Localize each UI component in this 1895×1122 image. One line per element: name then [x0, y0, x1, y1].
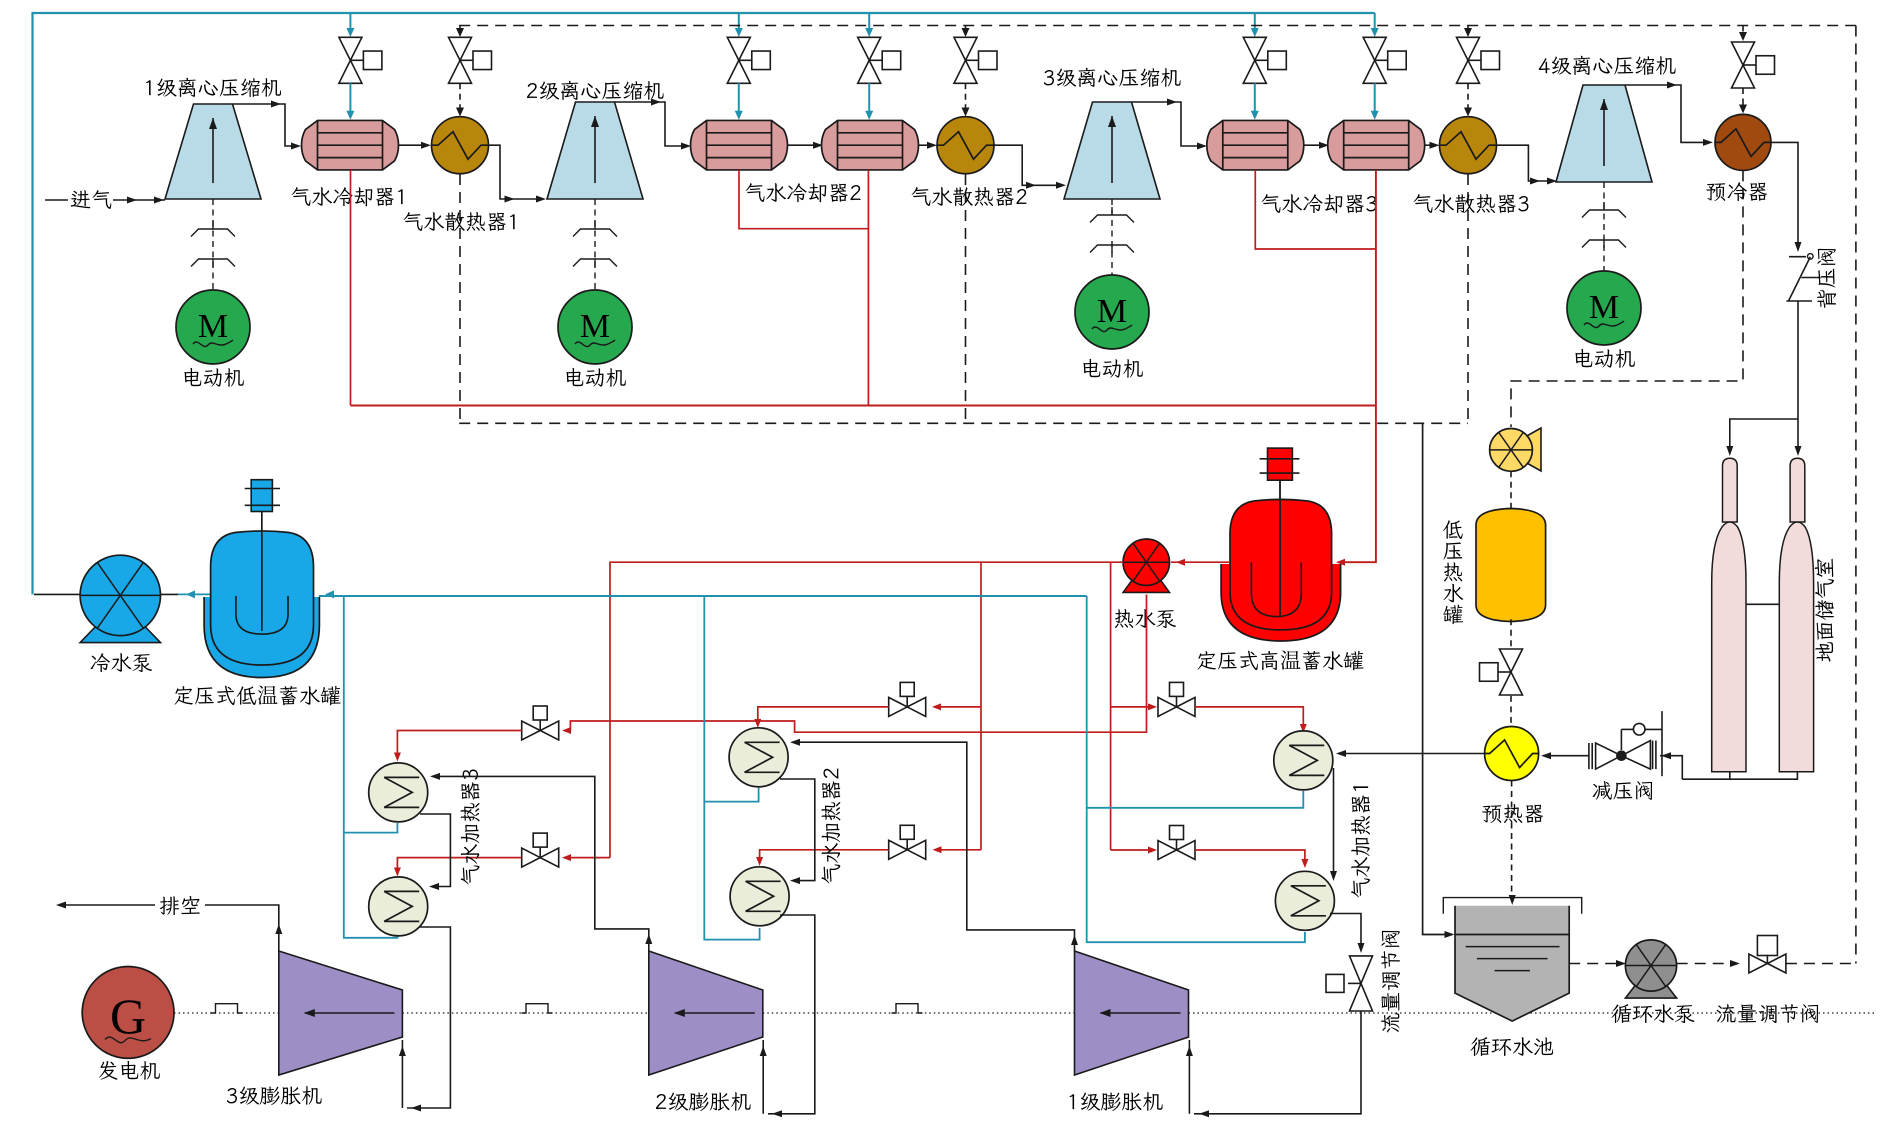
- wire heater2-bottom to expander2: [768, 915, 815, 1114]
- wire dashed valve to radiator: [459, 83, 461, 108]
- label 气水加热器2: [821, 768, 840, 883]
- wire flow valve to right riser: [1786, 963, 1856, 965]
- valve cooling water inlet valve: [727, 37, 750, 60]
- label 排空: [160, 896, 200, 915]
- wire red heater3a feed: [566, 721, 610, 731]
- cooler 气水冷却器3a: [1207, 120, 1304, 170]
- arrow teal into valve: [735, 28, 743, 37]
- wire storage to reducing valve: [1660, 756, 1682, 780]
- coupling compressor2 lower: [573, 259, 617, 267]
- wire dashed precooler to fan: [1511, 170, 1743, 427]
- valve below hot water tank: [1500, 649, 1523, 672]
- coupling compressor1 lower: [191, 259, 235, 267]
- label 2级膨胀机: [656, 1092, 751, 1111]
- wire red hot bus: [351, 405, 1376, 407]
- valve cooling water inlet valve: [1243, 37, 1266, 60]
- wire teal valve to cooler: [738, 83, 740, 111]
- label 气水冷却器1: [292, 187, 403, 206]
- wire dashed fan to tank: [1510, 471, 1512, 510]
- wire precooler to back pressure valve: [1771, 142, 1798, 246]
- svg-text:M: M: [198, 308, 228, 345]
- coupling compressor1 upper: [191, 229, 235, 237]
- wire teal heater2-top branch: [704, 787, 758, 802]
- wire dashed tank to valve: [1510, 619, 1512, 648]
- wire cooling return to pool: [1423, 423, 1448, 934]
- valve radiator cooling valve: [449, 37, 472, 60]
- wire teal valve to cooler: [868, 83, 870, 111]
- valve 减压阀: [1596, 743, 1622, 769]
- wire red pump bottom line: [610, 595, 1147, 733]
- heater 气水加热器2 top: [729, 728, 788, 787]
- wire cooler3b to radiator3: [1425, 144, 1433, 146]
- coupling compressor3 upper: [1090, 215, 1134, 223]
- label 流量调节阀 pool: [1717, 1004, 1819, 1023]
- coupling compressor4 lower: [1582, 240, 1626, 248]
- wire teal heater3-top branch: [344, 823, 398, 833]
- valve precooler cooling valve: [1732, 42, 1755, 65]
- wire red heater1b feed: [1111, 849, 1151, 851]
- wire dashed cooling-water top bus: [459, 25, 1856, 27]
- label 冷水泵: [90, 653, 152, 672]
- wire teal drop to cooler valve 3b: [1374, 13, 1376, 29]
- cooler 气水冷却器2b: [822, 120, 919, 170]
- wire teal drop to cooler valve: [868, 13, 870, 29]
- wire dashed radiator bottom to bus: [459, 174, 461, 423]
- expander 2级膨胀机: [649, 951, 763, 1075]
- preheater 预热器: [1485, 727, 1539, 781]
- wire red valve to heater3-top: [397, 731, 521, 756]
- wire red cooler2b drop: [867, 170, 869, 406]
- wire cooler2a to cooler2b: [788, 144, 818, 146]
- wire pool to circulating pump: [1569, 963, 1620, 965]
- wire radiator1 to compressor2: [489, 145, 542, 199]
- shaft compressor4 to motor4: [1603, 182, 1605, 271]
- expander 1级膨胀机: [1075, 951, 1189, 1075]
- valve 流量调节阀 pool: [1749, 954, 1768, 973]
- motor 电动机 1: [176, 290, 250, 364]
- label 气水散热器3: [1414, 194, 1529, 213]
- wire red valve to heater2-bottom: [760, 850, 889, 860]
- wire dashed stub to precooler valve: [1742, 26, 1744, 35]
- wire compressor4 outlet: [1625, 85, 1707, 142]
- valve heater2b control valve: [889, 840, 908, 859]
- wire dashed radiator bottom to bus: [965, 174, 967, 423]
- label 气水加热器1: [1351, 786, 1370, 897]
- svg-text:M: M: [1097, 293, 1127, 330]
- wire red heater3b feed arrow: [562, 854, 571, 861]
- label 循环水泵: [1611, 1004, 1694, 1023]
- wire teal heater1-top branch: [1087, 791, 1304, 808]
- compressor 4级离心压缩机: [1556, 85, 1652, 182]
- cooler 气水冷却器2a: [691, 120, 788, 170]
- radiator 气水散热器2: [937, 117, 994, 174]
- valve 背压阀: [1789, 256, 1806, 258]
- wire teal drop to cooler valve: [349, 13, 351, 29]
- valve heater2a control valve: [889, 697, 908, 716]
- wire teal valve to cooler: [1254, 83, 1256, 111]
- wire exp1 exhaust to heater2-top: [793, 742, 1075, 951]
- wire red heater1 riser: [1110, 562, 1112, 850]
- wire heater3-bottom to expander3: [407, 927, 450, 1108]
- label 定压式低温蓄水罐: [175, 686, 341, 706]
- wire teal valve to cooler: [1374, 83, 1376, 111]
- label 4级离心压缩机: [1539, 56, 1676, 75]
- heater 气水加热器3 bottom: [369, 877, 428, 936]
- label 预冷器: [1706, 182, 1767, 201]
- heater 气水加热器3 top: [369, 763, 428, 822]
- valve 流量调节阀 expander1: [1350, 956, 1373, 984]
- valve radiator cooling valve: [1457, 37, 1480, 60]
- tank 地面储气室 left: [1723, 458, 1738, 522]
- wire dashed valve to precooler: [1742, 88, 1744, 106]
- label 3级离心压缩机: [1044, 68, 1181, 87]
- wire compressor1 outlet: [233, 104, 296, 146]
- wire cooler2b to radiator2: [919, 144, 932, 146]
- pump 热水泵: [1123, 580, 1169, 592]
- wire cold pump to left riser: [34, 593, 81, 595]
- wire red valve to heater2-top: [758, 707, 889, 722]
- label 2级离心压缩机: [527, 81, 664, 100]
- label 循环水池: [1470, 1037, 1553, 1056]
- wire red heater2b feed: [936, 849, 981, 851]
- tank 地面储气室 right: [1790, 458, 1805, 522]
- valve heater1b control valve: [1158, 841, 1177, 860]
- wire dashed valve to radiator: [965, 83, 967, 108]
- motor 电动机 3: [1075, 275, 1149, 349]
- wire compressor2 outlet: [615, 102, 686, 146]
- label 发电机: [99, 1061, 160, 1080]
- label 地面储气室: [1815, 559, 1834, 662]
- wire heater2 link: [780, 779, 815, 881]
- wire red heater2 riser: [980, 562, 982, 850]
- wire red heater2a feed: [936, 706, 981, 708]
- svg-text:M: M: [1589, 289, 1619, 326]
- wire teal heater3 drop: [344, 596, 398, 938]
- pool 循环水池: [1455, 906, 1569, 1021]
- label 1级膨胀机: [1069, 1092, 1162, 1111]
- label 电动机 3: [1083, 359, 1142, 378]
- label 电动机 2: [566, 368, 625, 387]
- valve cooling water inlet valve: [1363, 37, 1386, 60]
- wire back pressure valve to storage: [1797, 301, 1799, 450]
- arrow teal into valve: [865, 28, 873, 37]
- cooler 气水冷却器1: [302, 120, 399, 170]
- label 1级离心压缩机: [146, 78, 281, 97]
- coupling generator-expander3: [211, 1004, 242, 1013]
- coupling expander2-expander1: [892, 1004, 923, 1013]
- wire teal return bus: [319, 595, 1087, 597]
- shaft compressor2 to motor2: [594, 199, 596, 290]
- expander 3级膨胀机: [279, 951, 403, 1075]
- wire red cooler2a drop: [739, 170, 868, 229]
- label 进气: [71, 190, 111, 209]
- compressor 3级离心压缩机: [1064, 102, 1160, 199]
- wire heater1 link: [1333, 768, 1335, 875]
- wire cooler1 to radiator1: [399, 144, 426, 146]
- label 电动机 4: [1575, 349, 1634, 368]
- tank 低压热水罐: [1476, 509, 1546, 622]
- label 减压阀: [1593, 781, 1653, 800]
- tank 定压式低温蓄水罐: [204, 597, 319, 678]
- wire teal drop to cooler valve: [1254, 13, 1256, 29]
- wire dashed cooling-water bottom bus: [459, 422, 1468, 424]
- arrow teal into valve: [1251, 28, 1259, 37]
- wire red valve to heater1-top: [1195, 707, 1303, 727]
- valve cooling water inlet valve: [858, 37, 881, 60]
- wire storage bottoms: [1730, 772, 1798, 779]
- label 电动机 1: [184, 368, 243, 387]
- radiator 气水散热器1: [432, 117, 489, 174]
- label 气水冷却器2: [746, 183, 861, 202]
- wire expander3 vent 排空: [205, 905, 279, 951]
- wire red cooler1 drop: [350, 170, 352, 406]
- pump 循环水泵: [1625, 985, 1676, 998]
- wire dashed valve to radiator: [1467, 83, 1469, 108]
- label 预热器: [1482, 804, 1543, 823]
- cooler 气水冷却器3b: [1328, 120, 1425, 170]
- label 定压式高温蓄水罐: [1198, 651, 1364, 671]
- wire dashed stub to radiator valve: [965, 26, 967, 31]
- wire heater3 link: [420, 814, 450, 887]
- wire compressor3 outlet: [1132, 102, 1202, 146]
- wire heater1-bottom outlet to flow valve: [1330, 914, 1361, 949]
- shaft compressor1 to motor1: [212, 199, 214, 290]
- wire dashed radiator bottom to bus: [1467, 174, 1469, 423]
- wire red tank to hot pump: [1171, 561, 1230, 563]
- coupling compressor3 lower: [1090, 245, 1134, 253]
- wire radiator2 to compressor3: [994, 145, 1062, 185]
- wire teal drop to cooler valve: [738, 13, 740, 29]
- generator 发电机: [82, 967, 174, 1059]
- wire exp2 exhaust to heater3-top: [433, 776, 649, 951]
- wire dashed preheater to pool: [1511, 781, 1513, 898]
- arrow teal into valve: [346, 28, 354, 37]
- wire storage crossover: [1746, 603, 1779, 605]
- svg-text:M: M: [580, 308, 610, 345]
- shaft compressor3 to motor3: [1111, 199, 1113, 275]
- wire preheater to heater1-top: [1338, 753, 1485, 755]
- wire red valve to heater1-bottom: [1195, 850, 1305, 862]
- wire flow valve to expander1: [1194, 1011, 1361, 1114]
- wire teal heater1 drop: [1087, 596, 1305, 942]
- wire red cooler3a drop: [1255, 170, 1376, 249]
- wire intake line 进气: [45, 199, 68, 201]
- label 流量调节阀 vertical: [1381, 931, 1400, 1033]
- wire tank to cold pump: [161, 593, 179, 595]
- wire teal valve to cooler: [349, 83, 351, 111]
- valve cooling water inlet valve: [339, 37, 362, 60]
- label 背压阀: [1817, 249, 1836, 308]
- label 气水散热器1: [404, 212, 515, 231]
- wire pump to flow valve: [1677, 963, 1734, 965]
- wire teal heater2 drop: [704, 596, 759, 940]
- wire dashed valve to preheater: [1510, 696, 1512, 726]
- label 气水散热器2: [912, 187, 1027, 206]
- wire dashed stub to radiator valve: [459, 26, 461, 31]
- label 气水加热器3: [461, 770, 480, 885]
- heater 气水加热器1 top: [1274, 731, 1333, 790]
- motor 电动机 2: [558, 290, 632, 364]
- tank 定压式高温蓄水罐: [1221, 564, 1341, 641]
- wire radiator3 to compressor4: [1497, 145, 1553, 181]
- label 气水冷却器3: [1262, 194, 1377, 213]
- coupling compressor2 upper: [573, 229, 617, 237]
- wire red heater1a feed: [1111, 706, 1151, 708]
- precooler 预冷器: [1715, 114, 1771, 170]
- valve heater3b control valve: [522, 848, 541, 867]
- wire red pump discharge: [610, 562, 1123, 857]
- label 3级膨胀机: [227, 1086, 322, 1105]
- motor 电动机 4: [1567, 271, 1641, 345]
- label 低压热水罐: [1443, 520, 1463, 539]
- wire red valve to heater3-bottom: [397, 858, 521, 871]
- valve heater3a control valve: [522, 721, 541, 740]
- radiator 气水散热器3: [1440, 117, 1497, 174]
- coupling compressor4 upper: [1582, 210, 1626, 218]
- wire reducing valve to preheater: [1543, 755, 1589, 757]
- coupling expander3-expander2: [522, 1004, 553, 1013]
- heater 气水加热器1 bottom: [1275, 871, 1334, 930]
- svg-text:G: G: [110, 988, 146, 1044]
- pump 冷水泵: [80, 627, 160, 643]
- valve heater1a control valve: [1158, 697, 1177, 716]
- valve radiator cooling valve: [954, 37, 977, 60]
- label 热水泵: [1115, 609, 1176, 628]
- wire dashed stub to radiator valve: [1467, 26, 1469, 31]
- wire cooler3a to cooler3b: [1304, 144, 1323, 146]
- heater 气水加热器2 bottom: [730, 867, 789, 926]
- wire dashed right riser: [1855, 26, 1857, 964]
- arrow teal into valve: [1371, 28, 1379, 37]
- wire red cooler3b drop to hot tank: [1340, 170, 1376, 562]
- compressor 2级离心压缩机: [547, 102, 643, 199]
- compressor 1级离心压缩机: [165, 104, 261, 199]
- wire cold water supply main (teal top bus and left riser): [33, 13, 1375, 594]
- fan above hot water tank: [1525, 428, 1541, 471]
- shaft expander train dotted: [174, 1012, 279, 1014]
